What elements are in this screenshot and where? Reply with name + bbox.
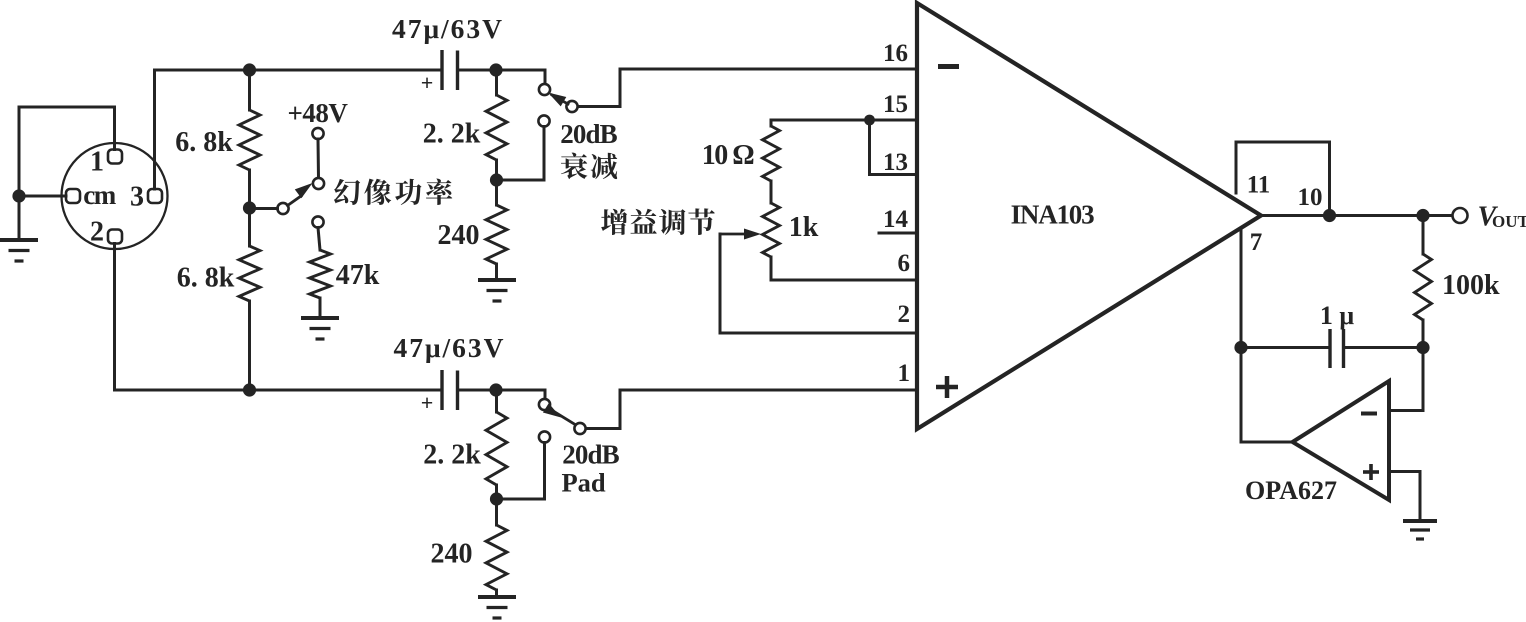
ground mic: [0, 196, 38, 261]
mic pin 3 label: [130, 182, 144, 213]
node bottom cap / 2.2k: [489, 383, 502, 396]
label 20dB bottom: [562, 440, 619, 470]
mic pin 2 label: [90, 217, 104, 248]
terminal +48V: [312, 128, 323, 139]
svg-text:2: 2: [90, 217, 104, 248]
mic pin 1 pad: [108, 150, 122, 164]
resistor 240 top: [486, 180, 507, 279]
node 2.2k/240 top: [490, 173, 503, 186]
wire +48V to switch contact: [317, 139, 321, 178]
label 2.2k top: [423, 119, 481, 150]
node bottom rail / 6.8k chain: [243, 383, 256, 396]
svg-text:6. 8k: 6. 8k: [177, 263, 235, 294]
node mic ground junction: [12, 189, 25, 202]
switch phantom common: [277, 203, 288, 214]
pin 2 label: [898, 301, 911, 328]
label 20dB top: [560, 119, 617, 149]
label 10 ohm: [702, 140, 755, 171]
mic label cm: [83, 180, 116, 210]
wire switch common to pin 16: [578, 69, 915, 107]
wire cm pad to ground junction: [19, 195, 66, 198]
ground OPA627: [1403, 521, 1437, 539]
label 240 bottom: [431, 539, 473, 570]
INA103 plus input symbol: [936, 376, 958, 398]
wire bottom rail mid: [458, 390, 546, 399]
svg-text:10: 10: [1298, 184, 1323, 211]
svg-text:6: 6: [898, 250, 911, 277]
label OPA627: [1245, 476, 1337, 505]
node pin7/1u: [1234, 341, 1247, 354]
ground 47k: [301, 318, 339, 339]
switch 20dB attenuation contact A: [539, 84, 550, 95]
node top rail / 6.8k: [243, 63, 256, 76]
resistor 6.8k upper: [239, 70, 260, 208]
svg-text:2. 2k: 2. 2k: [423, 119, 481, 150]
switch 20dB pad common: [574, 423, 585, 434]
label 6.8k upper: [175, 127, 233, 158]
mic cm pad: [66, 189, 80, 203]
pin 10 label: [1298, 184, 1323, 211]
capacitor 47u/63V top: [421, 50, 458, 95]
wire top rail mid: [458, 70, 546, 84]
wire OPA627 output to pin 7: [1241, 441, 1292, 444]
node 100k/output: [1416, 209, 1429, 222]
svg-text:1: 1: [90, 147, 104, 178]
label 240 top: [438, 220, 480, 251]
label 1u: [1320, 301, 1355, 330]
svg-text:16: 16: [883, 40, 908, 67]
capacitor 1u: [1241, 329, 1423, 368]
label Pad: [562, 468, 606, 498]
wire mic pin 2 to bottom rail: [113, 244, 116, 391]
switch phantom contact bottom: [312, 216, 323, 227]
label 1k: [789, 212, 819, 243]
potentiometer 1k: [763, 181, 780, 280]
pin 1 label: [898, 360, 911, 387]
OPA627 plus input symbol: [1363, 464, 1379, 480]
mic pin 1 label: [90, 147, 104, 178]
mic pin 3 pad: [148, 189, 162, 203]
svg-text:OUT: OUT: [1492, 212, 1526, 231]
pins 11/10 feedback box: [1236, 142, 1330, 216]
wire top rail left: [155, 69, 443, 72]
label huan xiang gong lv (phantom power): [334, 179, 452, 205]
svg-text:2: 2: [898, 301, 911, 328]
svg-text:10 Ω: 10 Ω: [702, 140, 755, 171]
pin 13 label: [883, 149, 908, 176]
resistor 2.2k bottom: [486, 390, 507, 499]
pin 15 label: [883, 91, 908, 118]
pot wiper arrow to pin 2: [720, 229, 915, 334]
op-amp INA103 body: [917, 3, 1261, 429]
switch 20dB pad lever: [543, 403, 575, 424]
label 47u/63V bottom: [393, 332, 505, 363]
label 6.8k lower: [177, 263, 235, 294]
svg-text:47k: 47k: [336, 260, 380, 291]
switch phantom lever: [288, 183, 313, 206]
pin 11 label: [1247, 172, 1271, 199]
label zeng yi tiao jie (gain adjust): [601, 208, 715, 235]
pin 14 label and stub: [879, 206, 915, 233]
switch 20dB attenuation common: [566, 101, 577, 112]
label 47k: [336, 260, 380, 291]
microphone connector body: [62, 143, 168, 249]
svg-text:20dB: 20dB: [562, 440, 619, 470]
ground 240 bottom: [478, 597, 516, 618]
resistor 47k: [310, 228, 331, 319]
INA103 minus input symbol: [938, 64, 959, 69]
label 2.2k bottom: [423, 440, 481, 471]
mic pin 2 pad: [108, 230, 122, 244]
svg-text:2. 2k: 2. 2k: [423, 440, 481, 471]
node 100k/1u: [1416, 341, 1429, 354]
svg-text:20dB: 20dB: [560, 119, 617, 149]
op-amp OPA627 body: [1293, 381, 1390, 500]
label shuai jian (attenuation): [561, 153, 617, 179]
switch 20dB attenuation lever: [548, 93, 568, 107]
svg-text:+: +: [421, 70, 434, 95]
svg-text:100k: 100k: [1442, 270, 1500, 301]
svg-text:11: 11: [1247, 172, 1271, 199]
label INA103: [1011, 200, 1095, 230]
ground 240 top: [478, 280, 516, 301]
svg-text:INA103: INA103: [1011, 200, 1095, 230]
switch phantom contact top: [313, 178, 324, 189]
OPA627 minus input symbol: [1361, 412, 1377, 416]
wire 1u node to OPA627 minus input: [1389, 348, 1423, 411]
pin 7 label: [1250, 229, 1263, 256]
svg-text:1: 1: [898, 360, 911, 387]
label 100k: [1442, 270, 1500, 301]
label +48V: [288, 98, 349, 128]
svg-text:14: 14: [883, 206, 909, 233]
svg-text:47μ/63V: 47μ/63V: [392, 13, 504, 44]
terminal Vout: [1453, 208, 1468, 223]
pin 16 label: [883, 40, 908, 67]
resistor 10 ohm: [763, 120, 780, 181]
label 47u/63V top: [392, 13, 504, 44]
wire node to pin 13: [870, 120, 916, 175]
node box/output: [1323, 209, 1336, 222]
wire 6.8k node to phantom common: [256, 207, 278, 210]
node pin15/pin13: [864, 115, 875, 126]
wire pad switch contact B to 2.2k/240 node: [497, 443, 545, 500]
resistor 6.8k lower: [239, 208, 260, 390]
resistor 2.2k top: [486, 70, 507, 180]
svg-text:Pad: Pad: [562, 468, 606, 498]
svg-text:240: 240: [438, 220, 480, 251]
wire pot bottom to pin 6: [771, 279, 915, 282]
wire switch contact B to 2.2k/240 node: [497, 127, 545, 181]
svg-text:7: 7: [1250, 229, 1263, 256]
svg-text:6. 8k: 6. 8k: [175, 127, 233, 158]
svg-text:15: 15: [883, 91, 908, 118]
node 6.8k midpoint: [243, 201, 256, 214]
node top cap / 2.2k: [489, 63, 502, 76]
wire bottom rail left: [115, 389, 443, 392]
resistor 100k: [1415, 216, 1432, 348]
wire mic pin 3 to top rail: [153, 70, 156, 189]
switch 20dB pad contact A: [539, 399, 550, 410]
resistor 240 bottom: [486, 499, 507, 596]
switch 20dB attenuation contact B: [538, 115, 549, 126]
svg-text:1 μ: 1 μ: [1320, 301, 1355, 330]
svg-text:+48V: +48V: [288, 98, 349, 128]
switch 20dB pad contact B: [539, 431, 550, 442]
node 2.2k/240 bottom: [490, 492, 503, 505]
capacitor 47u/63V bottom: [421, 370, 458, 415]
wire output: [1261, 214, 1453, 217]
svg-text:240: 240: [431, 539, 473, 570]
svg-text:+: +: [421, 390, 434, 415]
svg-text:47μ/63V: 47μ/63V: [393, 332, 505, 363]
label Vout: [1478, 202, 1526, 233]
wire pad switch common to pin 1: [586, 390, 915, 429]
pin 6 label: [898, 250, 911, 277]
svg-text:13: 13: [883, 149, 908, 176]
wire pot top to pin 15: [771, 119, 915, 122]
wire ground loop to pin 1: [19, 107, 115, 196]
svg-text:3: 3: [130, 182, 144, 213]
svg-text:1k: 1k: [789, 212, 819, 243]
wire pin 7 down: [1240, 228, 1243, 442]
svg-text:OPA627: OPA627: [1245, 476, 1337, 505]
wire OPA627 plus input to ground: [1389, 472, 1420, 521]
svg-text:cm: cm: [83, 180, 116, 210]
